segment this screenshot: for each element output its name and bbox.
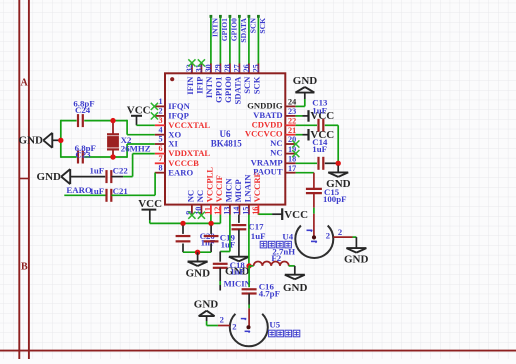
svg-text:C23: C23 — [75, 150, 91, 160]
svg-text:SCN: SCN — [248, 17, 257, 33]
pin 31 IFIP stub — [200, 63, 202, 73]
svg-text:IFIN: IFIN — [185, 76, 195, 95]
pin 15 LNAIN stub — [248, 205, 250, 215]
svg-text:GPIO1: GPIO1 — [220, 18, 229, 41]
label F2 — [271, 253, 281, 263]
pin 10 name NC — [195, 190, 205, 202]
svg-text:GND: GND — [194, 298, 219, 310]
wire GND bus — [183, 251, 211, 253]
pin 9 NC stub — [191, 205, 193, 215]
pin 27 name SDATA — [233, 76, 243, 105]
pin 18 VRAMP stub — [285, 162, 295, 164]
svg-text:SDATA: SDATA — [239, 17, 248, 42]
wire MICIN stub — [219, 268, 221, 291]
label C24 value 6.8pF — [73, 98, 94, 108]
connector U4 circle — [295, 226, 333, 258]
wire INTN vertical — [210, 15, 213, 64]
label C19 value 1uF — [221, 240, 236, 250]
pin 23 number — [288, 107, 296, 116]
no-connect X pin 1 — [151, 103, 158, 110]
label C20 — [200, 231, 216, 241]
svg-text:VCC: VCC — [127, 105, 151, 117]
svg-text:C24: C24 — [75, 105, 91, 115]
pin 24 name GNDDIG — [247, 100, 283, 110]
pin 4 name XO — [168, 129, 181, 139]
svg-text:EARO: EARO — [66, 185, 92, 195]
wire GPIO0 vertical — [229, 15, 232, 64]
label GND c20 c19 — [186, 268, 211, 280]
pin 22 CDVDD stub — [285, 124, 295, 126]
pin 13 name MICN — [224, 178, 234, 203]
svg-text:2: 2 — [232, 321, 236, 331]
pin 10 NC stub — [200, 205, 202, 215]
pin 23 VBATD stub — [285, 115, 295, 117]
pin 28 number — [223, 64, 232, 72]
pin 13 number — [222, 207, 231, 215]
wire C13 to rail — [325, 124, 338, 126]
label F2 value 2.7nH — [272, 247, 295, 257]
net label SDATA — [239, 17, 248, 42]
label GND C22 — [37, 171, 62, 183]
wire pin17 PAOUT — [296, 173, 314, 189]
svg-text:F2: F2 — [271, 253, 281, 263]
svg-text:14: 14 — [232, 207, 241, 215]
power VCC bar pin21 — [307, 129, 309, 141]
wire XO net top branch — [61, 120, 155, 135]
wire GPIO1 vertical — [219, 15, 222, 64]
pin 8 number — [159, 163, 163, 172]
svg-text:BK4815: BK4815 — [211, 138, 243, 148]
ground GND U4 — [346, 248, 366, 253]
capacitor C14 — [319, 157, 324, 170]
pin 19 NC stub — [285, 153, 295, 155]
capacitor C22 — [107, 170, 112, 183]
svg-text:GND: GND — [37, 171, 62, 183]
label VCC pin21 — [310, 129, 334, 141]
pin 29 GPIO1 stub — [219, 63, 221, 73]
svg-text:24: 24 — [288, 98, 296, 107]
pin 17 PAOUT stub — [285, 172, 295, 174]
svg-text:C22: C22 — [113, 166, 129, 176]
pin 22 number — [288, 117, 296, 126]
svg-text:A: A — [20, 77, 28, 88]
capacitor C19 — [204, 226, 219, 253]
svg-text:U4: U4 — [282, 231, 293, 241]
svg-text:XI: XI — [168, 139, 178, 149]
svg-text:NC: NC — [186, 190, 196, 202]
U4 pin2 number 2 — [338, 227, 342, 237]
svg-text:17: 17 — [288, 164, 296, 173]
pin 21 number — [288, 126, 296, 135]
label C13 — [312, 98, 328, 108]
label C20 value 1nF — [201, 238, 216, 248]
power VCC xtal port — [131, 116, 142, 126]
power VCC bar pin23 — [307, 110, 309, 122]
pin 26 SCN stub — [248, 63, 250, 73]
crystal X2 — [107, 120, 119, 158]
pin 12 name VCCIF — [214, 175, 224, 202]
pin 18 name VRAMP — [251, 157, 283, 167]
svg-text:VCCRF: VCCRF — [252, 172, 262, 202]
svg-text:VCC: VCC — [138, 198, 162, 210]
pin 24 number — [288, 98, 296, 107]
no-connect X pin 32 — [188, 59, 195, 66]
pin 8 name EARO — [168, 167, 193, 177]
net label INTN — [210, 17, 219, 37]
net label GPIO0 — [229, 18, 238, 41]
wire left rail — [60, 120, 62, 158]
pin 2 name IFQP — [168, 111, 189, 121]
label C22 — [113, 166, 129, 176]
svg-text:VCCIF: VCCIF — [214, 175, 224, 202]
label C24 — [75, 105, 91, 115]
pin 17 name PAOUT — [253, 167, 283, 177]
pin 11 number — [203, 207, 212, 215]
svg-text:10: 10 — [194, 207, 203, 215]
pin 11 VCCPLL stub — [210, 205, 212, 215]
wire node to GND — [337, 166, 339, 173]
capacitor C20 — [176, 226, 191, 253]
pin 3 number — [159, 116, 163, 125]
pin 28 name GPIO0 — [223, 77, 233, 103]
IC value BK4815 — [211, 138, 243, 148]
svg-text:27: 27 — [233, 64, 242, 72]
wire SCK vertical — [257, 15, 260, 64]
pin 20 number — [288, 135, 296, 144]
pin 6 VDDXTAL stub — [155, 153, 165, 155]
pin 10 number — [194, 207, 203, 215]
node VRAMP junction — [336, 161, 341, 166]
pin 19 name NC — [270, 148, 282, 158]
pin 14 number — [232, 207, 241, 215]
IC designator U6 — [220, 129, 231, 139]
pin 14 name MICP — [233, 179, 243, 202]
svg-text:15: 15 — [241, 207, 250, 215]
wire pin16 VCCRF to VCC — [258, 213, 282, 215]
svg-text:13: 13 — [222, 207, 231, 215]
U5 pin2 name 2 — [232, 321, 236, 331]
net label GPIO1 — [220, 18, 229, 41]
wire C22 to pin7 VCCCB — [111, 154, 154, 177]
svg-text:26: 26 — [242, 64, 251, 72]
pin 18 number — [288, 155, 296, 164]
capacitor C23 — [78, 151, 83, 164]
svg-text:6: 6 — [159, 144, 163, 153]
svg-text:EARO: EARO — [168, 167, 193, 177]
wire GND stem — [197, 252, 199, 261]
wire U4 pin2 to GND — [333, 237, 356, 248]
inductor F2 — [249, 262, 295, 275]
ground GND digital up arrow — [295, 87, 314, 93]
pin 25 name SCK — [252, 76, 262, 94]
svg-text:30: 30 — [204, 64, 213, 72]
svg-text:GPIO0: GPIO0 — [229, 18, 238, 41]
pin 26 number — [242, 64, 251, 72]
pin 15 name LNAIN — [243, 174, 253, 202]
label C23 value 6.8pF — [75, 143, 96, 153]
label U4 — [282, 231, 293, 241]
svg-text:100pF: 100pF — [323, 194, 346, 204]
svg-text:25: 25 — [252, 64, 261, 72]
label VCC xtal — [127, 105, 151, 117]
label U4 type coax socket — [260, 241, 291, 248]
pin 21 VCCVCO stub — [285, 134, 295, 136]
wire pin15 LNAIN down — [248, 215, 250, 266]
svg-text:GND: GND — [19, 134, 44, 146]
no-connect X pin 2 — [151, 112, 158, 119]
label C14 value 1uF — [312, 144, 327, 154]
ground GND C22 — [61, 169, 105, 184]
svg-text:MICN: MICN — [224, 178, 234, 203]
label VCC pin16 — [284, 209, 308, 221]
no-connect X pin 10 — [198, 212, 205, 219]
label GND vramp — [326, 178, 351, 190]
label C18 value 1uF overlap — [230, 267, 245, 277]
svg-text:12: 12 — [213, 207, 222, 215]
svg-text:NC: NC — [270, 138, 282, 148]
label GND f2 — [283, 282, 308, 294]
label C23 — [75, 150, 91, 160]
label C13 value 1uF — [312, 105, 327, 115]
node rail C20 junction — [180, 221, 185, 226]
pin 20 name NC — [270, 138, 282, 148]
pin 13 MICN stub — [229, 205, 231, 215]
svg-text:LNAIN: LNAIN — [243, 174, 253, 202]
pin 23 name VBATD — [253, 110, 282, 120]
ground GND U5 up arrow — [199, 311, 215, 316]
net label MICIN — [224, 278, 252, 288]
node crystal bottom junction — [110, 154, 115, 159]
label VCC pin23 — [310, 110, 334, 122]
svg-text:1uF: 1uF — [312, 144, 327, 154]
svg-text:B: B — [21, 261, 28, 272]
capacitor C16 — [242, 266, 257, 329]
connector U5 circle — [230, 314, 268, 346]
node GND bus junction — [195, 250, 200, 255]
pin 1 name IFQN — [168, 101, 190, 111]
svg-text:18: 18 — [288, 155, 296, 164]
zone label A — [20, 77, 28, 88]
U4 pin2 name 2 — [326, 231, 330, 241]
svg-text:2: 2 — [159, 107, 163, 116]
svg-text:SCK: SCK — [252, 76, 262, 94]
capacitor C18 — [213, 264, 228, 268]
pin 26 name SCN — [242, 76, 252, 94]
svg-text:1nF: 1nF — [201, 238, 216, 248]
svg-text:SCN: SCN — [242, 76, 252, 94]
net label EARO — [66, 185, 92, 195]
pin 21 name VCCVCO — [245, 129, 283, 139]
label C17 value 1uF — [251, 231, 266, 241]
ground GND xtal — [43, 133, 61, 148]
ground GND f2 — [285, 275, 305, 280]
wire pin24 to GND — [296, 93, 305, 107]
capacitor C15 — [306, 189, 322, 193]
svg-text:1uF: 1uF — [312, 105, 327, 115]
svg-text:VCC: VCC — [284, 209, 308, 221]
pin 15 number — [241, 207, 250, 215]
svg-text:GND: GND — [283, 282, 308, 294]
label C16 value 4.7pF — [259, 288, 280, 298]
wire C21 to pin8 EARO — [111, 173, 155, 196]
pin 3 name VCCXTAL — [168, 120, 210, 130]
svg-text:GND: GND — [344, 253, 369, 265]
pin 16 number — [251, 207, 260, 215]
wire VCC rail — [150, 215, 221, 224]
wire right rail — [337, 125, 339, 163]
svg-text:GND: GND — [186, 268, 211, 280]
pin 20 NC stub — [285, 143, 295, 145]
pin 22 name CDVDD — [252, 119, 283, 129]
node GND rail junction — [58, 138, 63, 143]
pin 27 SDATA stub — [238, 63, 240, 73]
capacitor C24 — [78, 114, 83, 127]
pin 6 name VDDXTAL — [168, 148, 210, 158]
label GND digital — [293, 75, 318, 87]
pin 11 name VCCPLL — [205, 167, 215, 203]
pin 5 XI stub — [155, 143, 165, 145]
label GND U5 — [194, 298, 219, 310]
U4 pin1 number 1 — [311, 241, 317, 242]
pin 29 number — [214, 64, 223, 72]
svg-text:1uF: 1uF — [230, 267, 245, 277]
label U5 — [269, 320, 280, 330]
svg-text:2: 2 — [338, 227, 342, 237]
U4 pin1 name 1 — [307, 230, 313, 231]
svg-text:23: 23 — [288, 107, 296, 116]
pin 28 GPIO0 stub — [229, 63, 231, 73]
capacitor C17 — [232, 215, 247, 257]
capacitor C21 — [107, 189, 112, 202]
no-connect X pin 19 — [292, 150, 299, 157]
pin 30 name INTN — [204, 76, 214, 98]
zone label B — [21, 261, 28, 272]
pin 25 number — [252, 64, 261, 72]
pin 8 EARO stub — [155, 172, 165, 174]
wire XI net bottom branch — [61, 144, 155, 158]
label C17 — [248, 221, 264, 231]
label GND U4 — [344, 253, 369, 265]
wire pin22 to C13 — [296, 124, 317, 126]
wire pin13 MICN down — [220, 215, 230, 262]
pin 27 number — [233, 64, 242, 72]
pin 3 VCCXTAL stub — [155, 124, 165, 126]
svg-text:2: 2 — [326, 231, 330, 241]
pin 4 XO stub — [155, 134, 165, 136]
op IC U6 body — [165, 73, 285, 204]
svg-text:GNDDIG: GNDDIG — [247, 100, 283, 110]
pin 12 VCCIF stub — [219, 205, 221, 215]
label C19 — [220, 233, 236, 243]
svg-text:4: 4 — [159, 125, 163, 134]
svg-text:1uF: 1uF — [90, 186, 105, 196]
wire C14 to node — [325, 162, 338, 164]
svg-text:2: 2 — [220, 315, 224, 325]
label C22 value 1uF — [90, 166, 105, 176]
pin 29 name GPIO1 — [214, 77, 224, 103]
pin 5 name XI — [168, 139, 178, 149]
U5 pin1 name 1 — [241, 319, 246, 320]
no-connect X pin 9 — [188, 212, 195, 219]
svg-text:MICIN: MICIN — [224, 278, 252, 288]
pin 31 name IFIP — [195, 77, 205, 94]
svg-text:GPIO1: GPIO1 — [214, 77, 224, 103]
net label SCN — [248, 17, 257, 33]
svg-text:5: 5 — [159, 135, 163, 144]
svg-text:1uF: 1uF — [90, 166, 105, 176]
wire C15 to U4 pin1 — [312, 193, 316, 239]
pin 7 name VCCCB — [168, 158, 199, 168]
wire SDATA vertical — [238, 15, 241, 64]
svg-text:29: 29 — [214, 64, 223, 72]
ground GND vramp — [328, 172, 348, 177]
svg-text:11: 11 — [203, 207, 212, 215]
ground GND micp — [229, 257, 249, 262]
svg-text:IFQN: IFQN — [168, 101, 190, 111]
wire SCN vertical — [248, 15, 251, 64]
pin 1 number — [159, 97, 163, 106]
pin 32 name IFIN — [185, 76, 195, 95]
svg-text:28: 28 — [223, 64, 232, 72]
no-connect X pin 20 — [292, 140, 299, 147]
label GND micp — [225, 265, 250, 277]
U5 pin1 number 1 — [245, 331, 250, 332]
pin 31 number — [195, 64, 204, 72]
svg-text:VCCPLL: VCCPLL — [205, 167, 215, 203]
wire pin18 to C14 — [296, 162, 317, 164]
label X2 — [121, 135, 132, 145]
wire pin23 to VCC — [296, 115, 309, 117]
pin 24 GNDDIG stub — [285, 105, 295, 107]
svg-text:22: 22 — [288, 117, 296, 126]
pin 1 IFQN stub — [155, 105, 165, 107]
node LNAIN junction — [246, 263, 251, 268]
power VCC bar pin16 — [281, 208, 283, 220]
net label SCK — [258, 18, 267, 34]
pin 9 number — [184, 211, 193, 215]
svg-text:SCK: SCK — [258, 18, 267, 34]
svg-text:1uF: 1uF — [221, 240, 236, 250]
label U5 type coax socket — [269, 330, 300, 337]
label C21 value 1uF — [90, 186, 105, 196]
pin 16 name VCCRF — [252, 172, 262, 202]
label C16 — [259, 282, 275, 292]
pin 4 number — [159, 125, 163, 134]
pin 7 VCCCB stub — [155, 162, 165, 164]
svg-text:GPIO0: GPIO0 — [223, 77, 233, 103]
pin 25 SCK stub — [257, 63, 259, 73]
wire EARO — [64, 194, 106, 196]
svg-text:7: 7 — [159, 154, 163, 163]
no-connect X pin 31 — [198, 59, 205, 66]
svg-text:INTN: INTN — [210, 17, 219, 37]
pin 16 VCCRF stub — [257, 205, 259, 215]
pin 14 MICP stub — [238, 205, 240, 215]
label C18 overlap — [230, 260, 246, 270]
pin 6 number — [159, 144, 163, 153]
label C21 — [113, 186, 128, 196]
wire pin11 drop — [210, 215, 212, 224]
pin 32 number — [185, 64, 194, 72]
pin 32 IFIN stub — [191, 63, 193, 73]
pin 19 number — [288, 145, 296, 154]
svg-text:INTN: INTN — [204, 76, 214, 98]
U5 pin2 number 2 — [220, 315, 224, 325]
power VCC bottom port — [142, 210, 157, 224]
svg-text:MICP: MICP — [233, 179, 243, 202]
svg-text:26MHZ: 26MHZ — [121, 144, 151, 154]
svg-text:21: 21 — [288, 126, 296, 135]
